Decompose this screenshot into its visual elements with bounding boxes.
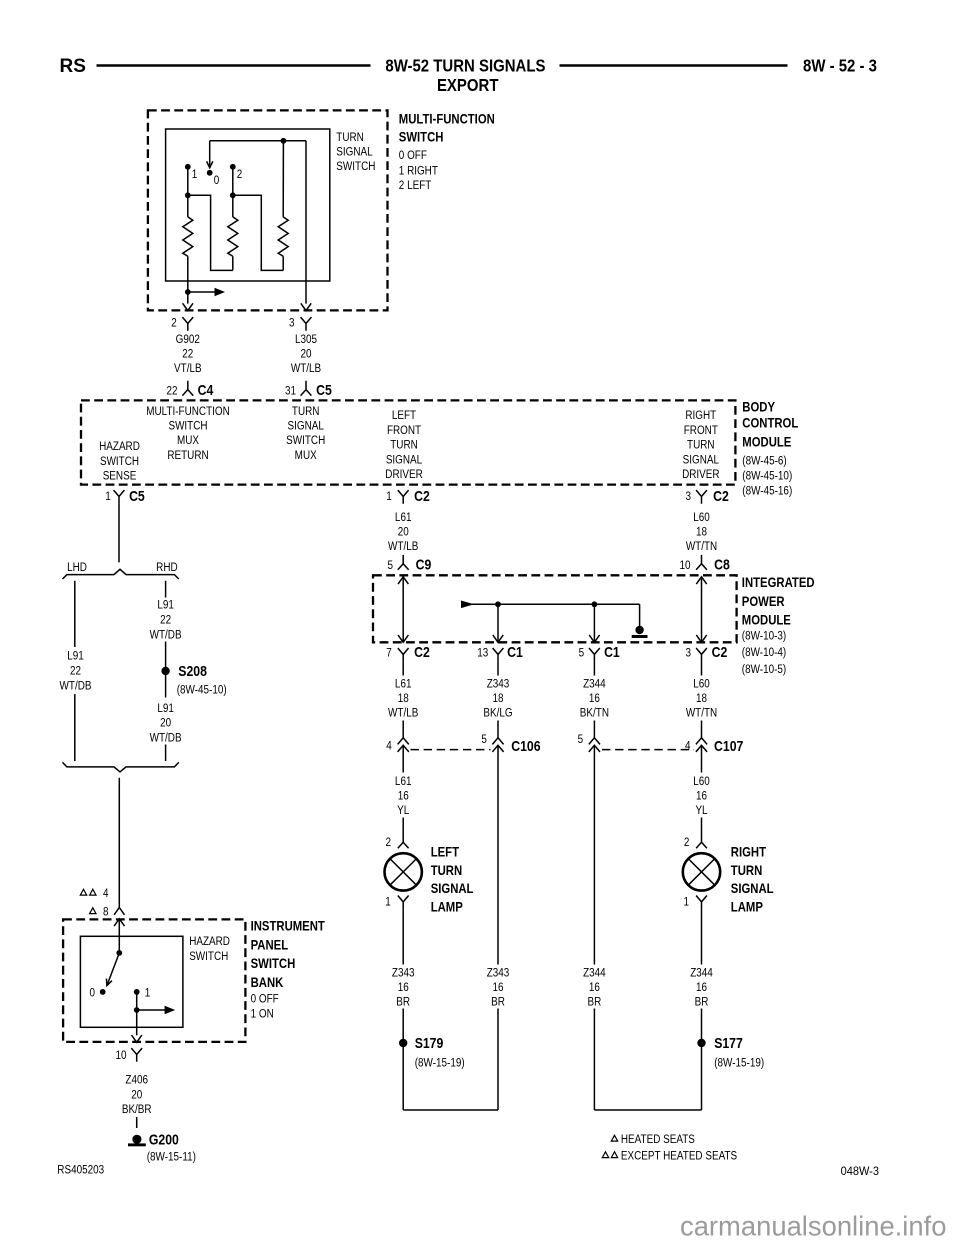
wire RHD upper segment: [165, 581, 167, 598]
svg-text:10: 10: [679, 559, 690, 572]
wire stub L60 lower: [701, 721, 703, 738]
svg-text:WT/DB: WT/DB: [60, 679, 92, 692]
svg-text:SWITCH: SWITCH: [100, 455, 139, 468]
svg-text:L305: L305: [295, 333, 317, 346]
wire stub Z344: [593, 662, 595, 676]
svg-text:RS405203: RS405203: [57, 1163, 104, 1176]
svg-text:BANK: BANK: [251, 974, 284, 990]
node A junction under contact 1: [185, 192, 191, 198]
wire bus end down to internal ground: [639, 604, 641, 626]
svg-text:BK/BR: BK/BR: [122, 1103, 152, 1116]
svg-text:C107: C107: [714, 738, 743, 754]
connector half pin 5 C1: [589, 648, 600, 662]
svg-text:8W-52 TURN SIGNALS: 8W-52 TURN SIGNALS: [385, 57, 545, 76]
svg-text:8W - 52 - 3: 8W - 52 - 3: [803, 57, 877, 76]
svg-text:DRIVER: DRIVER: [682, 468, 719, 481]
contact 0: [207, 170, 213, 176]
svg-text:BK/LG: BK/LG: [483, 707, 512, 720]
resistor R1 lead: [187, 195, 189, 217]
arrow down to 5 C1: [589, 635, 599, 642]
svg-text:2: 2: [237, 168, 243, 181]
body control module dashed box: [81, 400, 735, 484]
svg-text:SIGNAL: SIGNAL: [288, 419, 324, 432]
wire stub Z344 lower: [593, 721, 595, 738]
svg-text:WT/DB: WT/DB: [150, 731, 182, 744]
flow arrow right at exit junction: [188, 291, 217, 293]
svg-text:FRONT: FRONT: [684, 424, 718, 437]
svg-text:C1: C1: [604, 644, 620, 660]
svg-text:C2: C2: [414, 644, 430, 660]
wire Z344 feed up: [593, 1009, 595, 1111]
svg-text:FRONT: FRONT: [387, 424, 421, 437]
svg-text:C9: C9: [416, 557, 432, 573]
svg-text:SIGNAL: SIGNAL: [431, 880, 474, 896]
wire contact2 to junction: [232, 167, 234, 196]
wire RHD lower segment: [165, 745, 167, 762]
svg-text:1: 1: [105, 490, 111, 503]
svg-text:3: 3: [686, 646, 692, 659]
wire down through S179: [402, 1009, 404, 1111]
svg-text:7: 7: [386, 646, 392, 659]
svg-text:Z343: Z343: [392, 966, 415, 979]
flow arrow feed (triangle): [461, 601, 474, 609]
wire contact 1 down: [136, 992, 138, 1010]
svg-text:YL: YL: [397, 804, 409, 817]
connector half pin 8 (double chevron): [114, 908, 124, 915]
svg-text:RHD: RHD: [156, 561, 177, 574]
arrow exit pin 3: [301, 303, 311, 310]
svg-text:22: 22: [182, 348, 193, 361]
svg-text:G902: G902: [176, 333, 200, 346]
svg-text:(8W-15-11): (8W-15-11): [147, 1151, 196, 1164]
svg-text:HAZARD: HAZARD: [99, 440, 140, 453]
svg-text:BR: BR: [396, 996, 410, 1009]
arrow down to 7 C2: [398, 635, 408, 642]
svg-text:5: 5: [387, 559, 393, 572]
svg-text:5: 5: [579, 646, 585, 659]
svg-text:1 ON: 1 ON: [251, 1007, 274, 1020]
svg-text:Z344: Z344: [583, 966, 606, 979]
svg-text:C5: C5: [129, 488, 145, 504]
svg-text:SIGNAL: SIGNAL: [386, 453, 422, 466]
svg-text:INSTRUMENT: INSTRUMENT: [251, 917, 325, 933]
connector half pin 4 C107: [696, 738, 707, 752]
svg-text:Z344: Z344: [583, 677, 606, 690]
svg-text:L60: L60: [693, 677, 710, 690]
connector half pin 5 C9: [398, 555, 409, 570]
svg-text:Z406: Z406: [125, 1074, 148, 1087]
svg-text:RETURN: RETURN: [167, 449, 208, 462]
node bus to 13 C1: [495, 601, 501, 607]
svg-text:RS: RS: [60, 56, 86, 77]
ground G200 symbol: [132, 1135, 141, 1144]
wire U-bottom left pair: [403, 1109, 498, 1111]
svg-text:BODY: BODY: [742, 398, 775, 414]
svg-text:S208: S208: [178, 663, 207, 679]
svg-text:L60: L60: [693, 775, 710, 788]
wire down through S177: [701, 1009, 703, 1111]
svg-text:TURN: TURN: [390, 439, 418, 452]
svg-text:SWITCH: SWITCH: [399, 129, 444, 145]
wire Z343 feed upper: [497, 745, 499, 964]
svg-text:TURN: TURN: [336, 131, 364, 144]
svg-text:(8W-45-6): (8W-45-6): [742, 455, 787, 468]
svg-text:10: 10: [115, 1049, 126, 1062]
svg-text:SIGNAL: SIGNAL: [731, 880, 774, 896]
svg-text:2: 2: [684, 836, 690, 849]
wire stub L61: [402, 662, 404, 676]
svg-text:C8: C8: [714, 557, 730, 573]
wire to lamp pin 2: [402, 818, 404, 834]
node bus to 5 C1: [592, 601, 598, 607]
right turn signal lamp (bulb): [683, 853, 720, 890]
hazard switch lever arrow: [107, 953, 119, 986]
splice S179: [399, 1039, 407, 1047]
svg-text:2: 2: [386, 836, 392, 849]
svg-text:SWITCH: SWITCH: [189, 950, 228, 963]
instrument panel switch bank dashed box: [63, 919, 245, 1042]
variant triangle and pin 8: [90, 908, 96, 914]
resistor R3 lead from top bus: [282, 141, 284, 217]
svg-text:PANEL: PANEL: [251, 936, 289, 952]
svg-text:L61: L61: [395, 775, 412, 788]
svg-text:BK/TN: BK/TN: [580, 707, 609, 720]
connector half pin 1 right lamp: [696, 896, 707, 910]
svg-text:16: 16: [589, 981, 600, 994]
merge symbol: [63, 762, 179, 772]
connector half pin 1 C2: [398, 490, 409, 504]
connector half pin 10 C8: [696, 555, 707, 570]
wire C5 pin1 down: [118, 504, 120, 563]
connector half pin 2 right lamp: [696, 834, 707, 849]
resistor R2: [228, 217, 238, 256]
svg-text:1: 1: [145, 986, 151, 999]
wire exit junction down: [187, 292, 189, 304]
svg-text:C2: C2: [414, 488, 430, 504]
svg-text:4: 4: [685, 740, 691, 753]
svg-text:LEFT: LEFT: [392, 409, 416, 422]
svg-text:WT/LB: WT/LB: [291, 362, 321, 375]
svg-text:0 OFF: 0 OFF: [251, 993, 279, 1006]
C107 tie dashed line: [602, 749, 694, 751]
svg-text:16: 16: [696, 981, 707, 994]
resistor R1: [183, 217, 193, 256]
C106 tie dashed line: [411, 749, 491, 751]
svg-text:1 RIGHT: 1 RIGHT: [399, 164, 438, 177]
svg-text:SWITCH: SWITCH: [251, 955, 296, 971]
svg-text:16: 16: [398, 789, 409, 802]
svg-text:WT/LB: WT/LB: [388, 707, 418, 720]
wire junction B to R3 bottom (L route): [233, 195, 283, 270]
legend heated seats triangle: [611, 1135, 617, 1141]
svg-text:C1: C1: [507, 644, 523, 660]
svg-text:WT/TN: WT/TN: [686, 540, 717, 553]
arrow exit pin 10: [132, 1035, 142, 1042]
svg-text:DRIVER: DRIVER: [385, 468, 422, 481]
wire down to 13 C1: [497, 604, 499, 642]
wire LHD lower segment: [74, 694, 76, 761]
wire RHD middle segment: [165, 642, 167, 698]
header rule left: [97, 64, 371, 66]
svg-text:POWER: POWER: [742, 593, 785, 609]
svg-text:5: 5: [578, 733, 584, 746]
arrow up into C9: [398, 577, 408, 584]
svg-text:Z344: Z344: [690, 966, 713, 979]
svg-text:(8W-10-5): (8W-10-5): [742, 663, 787, 676]
svg-text:LHD: LHD: [67, 561, 87, 574]
wire junction A to R2 bottom (L route): [188, 195, 233, 270]
wire IPM horizontal bus: [472, 603, 640, 605]
wire stub L61 lower: [402, 721, 404, 738]
svg-text:EXPORT: EXPORT: [437, 76, 499, 95]
svg-text:31: 31: [285, 384, 296, 397]
connector half pin 4 C106: [398, 738, 409, 752]
svg-text:C106: C106: [511, 738, 540, 754]
connector half pin 3: [301, 317, 312, 331]
svg-text:BR: BR: [695, 996, 709, 1009]
svg-text:0 OFF: 0 OFF: [399, 149, 427, 162]
arrow up into C8: [696, 577, 706, 584]
svg-text:WT/LB: WT/LB: [388, 540, 418, 553]
svg-text:INTEGRATED: INTEGRATED: [742, 574, 815, 590]
svg-text:C2: C2: [712, 644, 728, 660]
resistor R3: [278, 217, 288, 256]
arrow down to 13 C1: [493, 635, 503, 642]
connector half pin 31: [301, 381, 312, 396]
svg-text:16: 16: [492, 981, 503, 994]
contact 0 hazard: [100, 989, 106, 995]
left turn signal lamp (bulb): [385, 853, 422, 890]
node under contact 1: [134, 1007, 140, 1013]
svg-text:22: 22: [160, 613, 171, 626]
svg-text:HAZARD: HAZARD: [189, 935, 230, 948]
wire to ground G200: [136, 1117, 138, 1128]
svg-text:22: 22: [166, 384, 177, 397]
svg-text:EXCEPT HEATED SEATS: EXCEPT HEATED SEATS: [621, 1149, 737, 1162]
svg-text:L61: L61: [395, 511, 412, 524]
svg-text:WT/DB: WT/DB: [150, 628, 182, 641]
svg-text:MUX: MUX: [295, 449, 317, 462]
svg-text:TURN: TURN: [431, 862, 462, 878]
wire L60 below C107: [701, 745, 703, 772]
wire stub L60: [701, 662, 703, 676]
svg-text:WT/TN: WT/TN: [686, 707, 717, 720]
connector half pin 22: [182, 381, 193, 396]
svg-text:BR: BR: [588, 996, 602, 1009]
svg-text:RIGHT: RIGHT: [731, 843, 766, 859]
svg-text:SWITCH: SWITCH: [168, 419, 207, 432]
node B junction under contact 2: [230, 192, 236, 198]
wire into hazard switch: [118, 919, 120, 953]
svg-text:G200: G200: [149, 1132, 179, 1148]
arrow down to 3 C2: [696, 635, 706, 642]
svg-text:L91: L91: [157, 598, 174, 611]
svg-text:SIGNAL: SIGNAL: [683, 453, 719, 466]
svg-text:8: 8: [103, 905, 109, 918]
svg-text:L91: L91: [157, 702, 174, 715]
svg-text:TURN: TURN: [292, 405, 320, 418]
svg-text:1: 1: [385, 896, 391, 909]
svg-text:carmanualsonline.info: carmanualsonline.info: [680, 1210, 946, 1241]
legend except heated seats triangles: [602, 1152, 608, 1158]
wire LHD upper segment: [74, 581, 76, 647]
splice S208: [161, 667, 169, 675]
turn signal switch inner box: [166, 129, 330, 281]
svg-text:MODULE: MODULE: [742, 611, 791, 627]
svg-text:2 LEFT: 2 LEFT: [399, 179, 432, 192]
svg-text:(8W-10-3): (8W-10-3): [742, 630, 787, 643]
integrated power module dashed box: [373, 575, 737, 642]
connector half pin 5 C107: [589, 738, 600, 752]
connector half pin 1 left lamp: [398, 896, 409, 910]
resistor R2 lead: [232, 195, 234, 217]
svg-text:0: 0: [214, 174, 220, 187]
svg-text:Z343: Z343: [487, 966, 510, 979]
svg-text:Z343: Z343: [487, 677, 510, 690]
svg-text:MODULE: MODULE: [742, 433, 791, 449]
svg-text:S177: S177: [714, 1035, 743, 1051]
contact 2: [230, 164, 236, 170]
hazard switch inner box: [80, 936, 182, 1027]
svg-text:HEATED SEATS: HEATED SEATS: [621, 1133, 695, 1146]
svg-text:16: 16: [696, 789, 707, 802]
connector half pin 7 C2: [398, 648, 409, 662]
svg-text:048W-3: 048W-3: [841, 1165, 879, 1179]
svg-text:SWITCH: SWITCH: [336, 160, 375, 173]
svg-text:5: 5: [481, 733, 487, 746]
svg-text:MUX: MUX: [177, 434, 199, 447]
contact 1 hazard: [134, 989, 140, 995]
svg-text:C5: C5: [316, 382, 332, 398]
svg-text:RIGHT: RIGHT: [685, 409, 716, 422]
svg-text:C2: C2: [713, 488, 729, 504]
svg-text:(8W-15-19): (8W-15-19): [714, 1056, 764, 1069]
svg-text:1: 1: [386, 490, 392, 503]
svg-text:MULTI-FUNCTION: MULTI-FUNCTION: [399, 110, 495, 126]
wire U-bottom right pair: [594, 1109, 701, 1111]
svg-text:MULTI-FUNCTION: MULTI-FUNCTION: [146, 405, 230, 418]
wire IPM left vertical: [402, 577, 404, 643]
svg-text:SIGNAL: SIGNAL: [336, 146, 372, 159]
variant triangles and pin 4: [80, 889, 86, 895]
svg-text:20: 20: [398, 526, 409, 539]
svg-text:20: 20: [160, 717, 171, 730]
internal ground bar: [632, 635, 648, 638]
contact 1: [185, 164, 191, 170]
header rule right: [560, 64, 788, 66]
wire lamp to Z343 label: [402, 909, 404, 964]
internal ground dot: [635, 626, 643, 634]
svg-text:L61: L61: [395, 677, 412, 690]
svg-text:0: 0: [90, 986, 96, 999]
split symbol LHD/RHD: [63, 569, 179, 579]
svg-text:L60: L60: [693, 511, 710, 524]
svg-text:LAMP: LAMP: [731, 898, 764, 914]
svg-text:18: 18: [398, 692, 409, 705]
connector half pin 2 left lamp: [398, 834, 409, 849]
svg-text:1: 1: [192, 168, 198, 181]
svg-text:18: 18: [492, 692, 503, 705]
wire L61 below C106: [402, 745, 404, 772]
svg-text:SENSE: SENSE: [103, 469, 137, 482]
wire lamp to Z344 label: [701, 909, 703, 964]
connector half pin 3 C2: [696, 648, 707, 662]
svg-text:18: 18: [696, 526, 707, 539]
svg-text:16: 16: [398, 981, 409, 994]
svg-text:3: 3: [686, 490, 692, 503]
connector half pin 5 C106: [492, 738, 503, 752]
svg-text:C4: C4: [198, 382, 214, 398]
wire contact1 to junction: [187, 167, 189, 196]
flow arrow right at hazard node: [137, 1009, 167, 1011]
svg-text:22: 22: [70, 664, 81, 677]
svg-text:1: 1: [684, 896, 690, 909]
wire to lamp pin 2 right: [701, 818, 703, 834]
svg-text:VT/LB: VT/LB: [174, 362, 202, 375]
svg-text:BR: BR: [491, 996, 505, 1009]
wire merged down to hazard switch: [118, 778, 120, 908]
node hazard switch common: [116, 950, 122, 956]
wire R1 bottom to exit junction: [187, 256, 189, 292]
connector half pin 1 C5: [114, 490, 125, 504]
connector half pin 10: [131, 1048, 142, 1062]
wire top bus: [210, 140, 306, 142]
svg-text:(8W-45-16): (8W-45-16): [742, 485, 792, 498]
wire down to 5 C1: [593, 604, 595, 642]
svg-text:13: 13: [477, 646, 488, 659]
svg-text:4: 4: [103, 887, 109, 900]
svg-text:CONTROL: CONTROL: [742, 414, 798, 430]
wire hazard output down: [136, 1010, 138, 1035]
wire right bus down to pin 3: [305, 141, 307, 304]
wire Z343 feed up: [497, 1009, 499, 1111]
svg-text:YL: YL: [695, 804, 707, 817]
svg-text:20: 20: [300, 348, 311, 361]
svg-text:(8W-15-19): (8W-15-19): [415, 1056, 465, 1069]
multi-function switch dashed box: [148, 110, 388, 310]
splice S177: [697, 1039, 705, 1047]
connector half pin 3 C2: [696, 490, 707, 504]
svg-text:LEFT: LEFT: [431, 843, 460, 859]
svg-text:L91: L91: [67, 649, 84, 662]
svg-text:TURN: TURN: [687, 439, 715, 452]
arrow exit pin 2: [183, 303, 193, 310]
svg-text:3: 3: [289, 317, 295, 330]
wire Z344 feed upper: [593, 745, 595, 964]
wire IPM right vertical: [701, 577, 703, 643]
svg-text:(8W-10-4): (8W-10-4): [742, 646, 787, 659]
svg-text:4: 4: [386, 740, 392, 753]
svg-text:SWITCH: SWITCH: [286, 434, 325, 447]
svg-text:TURN: TURN: [731, 862, 762, 878]
connector half pin 2: [182, 317, 193, 331]
svg-text:S179: S179: [415, 1035, 444, 1051]
wire R3 bottom stub: [282, 256, 284, 270]
node exit junction under R1: [185, 289, 191, 295]
wire R2 bottom stub: [232, 256, 234, 270]
svg-text:18: 18: [696, 692, 707, 705]
wire stub Z343: [497, 662, 499, 676]
svg-text:(8W-45-10): (8W-45-10): [742, 470, 792, 483]
wire stub Z343 lower: [497, 721, 499, 738]
wiper arrow to contact 0: [209, 141, 211, 166]
connector half pin 13 C1: [493, 648, 504, 662]
svg-text:16: 16: [589, 692, 600, 705]
svg-text:LAMP: LAMP: [431, 898, 464, 914]
svg-text:20: 20: [131, 1088, 142, 1101]
svg-text:(8W-45-10): (8W-45-10): [177, 683, 227, 696]
node on top bus: [281, 138, 287, 144]
